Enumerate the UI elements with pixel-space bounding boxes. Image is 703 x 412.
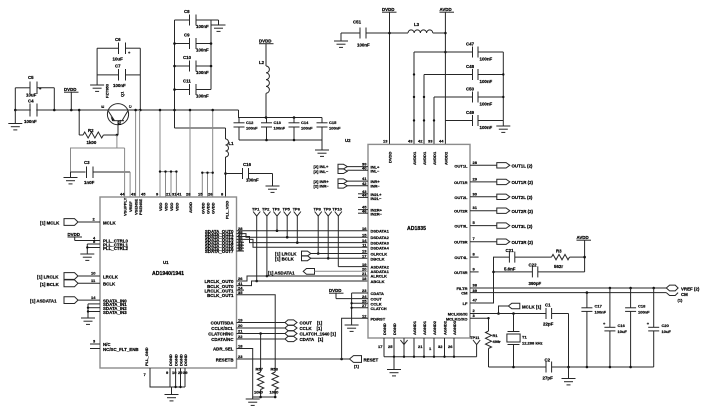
svg-text:CCLK/SCL: CCLK/SCL <box>211 326 234 331</box>
ground (C12 group) <box>315 140 329 156</box>
svg-text:NC/SC_FLT_ENB: NC/SC_FLT_ENB <box>103 347 139 352</box>
transistor Q1 FZT953 <box>100 83 133 136</box>
svg-text:100nF: 100nF <box>113 83 126 88</box>
svg-text:DVDD: DVDD <box>329 288 341 293</box>
node PLL_CTRL0 wire <box>75 235 129 243</box>
svg-text:TP3: TP3 <box>272 207 280 212</box>
svg-text:47: 47 <box>473 298 478 303</box>
wire U1 AVDD pin to rail <box>189 109 192 197</box>
svg-text:26: 26 <box>208 192 213 197</box>
capacitor C47 <box>414 42 503 62</box>
svg-text:ALRCLK: ALRCLK <box>371 274 388 279</box>
svg-text:[1]: [1] <box>354 364 360 369</box>
wire U1 VSUPPLY pin up <box>124 148 126 197</box>
ground (CDATA tie) <box>345 325 359 331</box>
capacitor C1 <box>543 303 569 327</box>
svg-text:TP6: TP6 <box>293 207 301 212</box>
wire LF to filter <box>470 257 509 303</box>
connector ASDATA1 [1] (to SDATA_IN0) <box>30 295 127 304</box>
svg-text:100nF: 100nF <box>246 126 258 131</box>
svg-text:R3: R3 <box>556 249 562 254</box>
svg-text:100nF: 100nF <box>24 119 37 124</box>
svg-text:RESETB: RESETB <box>216 357 234 362</box>
svg-text:L3: L3 <box>414 22 420 27</box>
wire OUT4L stub <box>470 256 479 258</box>
wire MCLKO/XO to R1 <box>470 317 490 331</box>
capacitor C10 <box>175 55 212 75</box>
svg-text:40: 40 <box>362 166 367 171</box>
connector MCLK [1] <box>40 217 117 226</box>
svg-text:28: 28 <box>473 160 478 165</box>
svg-text:R1: R1 <box>493 333 499 338</box>
connector BCLK [1] <box>40 278 116 287</box>
svg-text:TP10: TP10 <box>332 207 342 212</box>
op-amp U1 AD1940/1941 body <box>100 197 237 368</box>
connector CLATCH_1940 [1] <box>237 331 337 337</box>
svg-text:DGND: DGND <box>392 323 397 335</box>
capacitor C6 <box>97 37 140 62</box>
capacitor C12 <box>234 118 259 141</box>
power DVDD (U2) <box>382 7 397 144</box>
svg-text:C17: C17 <box>595 304 603 309</box>
svg-text:OUT3L: OUT3L <box>454 224 468 229</box>
svg-text:OUT4R: OUT4R <box>454 270 468 275</box>
power DVDD (COUT tie) <box>329 288 368 299</box>
svg-text:100nF: 100nF <box>196 94 209 99</box>
svg-text:CLATCH: CLATCH <box>371 306 387 311</box>
svg-text:VREF: VREF <box>128 201 133 212</box>
wire AVDD distribution verticals <box>413 52 435 144</box>
inductor L1 <box>224 128 234 197</box>
svg-text:30: 30 <box>473 191 478 196</box>
svg-text:TP8: TP8 <box>314 207 322 212</box>
svg-text:CDATA [1]: CDATA [1] <box>300 337 324 342</box>
svg-text:DVDD: DVDD <box>382 7 394 12</box>
resistor R2 <box>78 109 117 145</box>
svg-text:[1] BCLK: [1] BCLK <box>275 257 295 262</box>
power AVDD (U2) <box>440 7 455 144</box>
svg-text:OUT1L: OUT1L <box>454 163 468 168</box>
U1 top pin labels <box>123 197 230 219</box>
capacitor C51 <box>341 20 390 48</box>
svg-text:43: 43 <box>131 192 136 197</box>
ground (PLL_CTRL) <box>80 244 94 260</box>
svg-text:DVDD: DVDD <box>388 152 393 163</box>
connector OUT1L (2) <box>470 163 533 169</box>
connector OUT2L (2) <box>470 194 533 200</box>
svg-text:22pF: 22pF <box>543 322 554 327</box>
node N/C pin <box>90 339 111 348</box>
svg-text:CDATA/NC: CDATA/NC <box>211 337 234 342</box>
svg-text:COUT/SDA: COUT/SDA <box>211 321 235 326</box>
svg-text:12: 12 <box>362 313 367 318</box>
svg-text:COUT [1]: COUT [1] <box>300 321 323 326</box>
ground (C47 group) <box>496 126 510 132</box>
wire C1 right to ground rail <box>568 314 570 368</box>
U2 bottom DGND pins <box>378 320 477 358</box>
svg-text:DVDD: DVDD <box>68 232 80 237</box>
svg-text:27pF: 27pF <box>543 376 554 381</box>
svg-text:LF: LF <box>463 301 468 306</box>
svg-text:C51: C51 <box>353 20 362 25</box>
node IN2L stubs <box>358 194 368 198</box>
svg-text:DVDD: DVDD <box>64 87 76 92</box>
connector ASDATA1 [1] mid <box>268 269 368 276</box>
test point TP11 <box>470 335 480 357</box>
svg-text:100nF: 100nF <box>196 48 209 53</box>
ground (C51) <box>334 33 348 47</box>
test point TP1 <box>252 207 260 283</box>
power AVDD (filter) <box>577 235 592 272</box>
svg-text:C1: C1 <box>545 303 551 308</box>
svg-text:C16: C16 <box>243 162 252 167</box>
capacitor C11 <box>175 79 212 99</box>
svg-text:32: 32 <box>438 344 443 349</box>
svg-text:L2: L2 <box>259 60 265 65</box>
svg-text:38: 38 <box>473 283 478 288</box>
svg-text:PLL_VDD: PLL_VDD <box>225 201 230 219</box>
svg-text:ABCLK: ABCLK <box>371 279 385 284</box>
capacitor C13 <box>261 118 286 141</box>
svg-text:L1: L1 <box>229 141 235 146</box>
capacitor C18 <box>625 288 650 368</box>
svg-text:21: 21 <box>418 344 423 349</box>
node SDATA_IN1 wire <box>88 299 127 307</box>
svg-text:44: 44 <box>439 139 444 144</box>
resistor R3 <box>552 249 585 270</box>
svg-text:VDD: VDD <box>164 202 169 211</box>
svg-text:28: 28 <box>186 192 191 197</box>
svg-text:[1] BCLK: [1] BCLK <box>40 282 60 287</box>
U1 bottom PLL_GND pin <box>144 347 171 387</box>
svg-text:10uF: 10uF <box>113 57 124 62</box>
svg-text:DGND: DGND <box>382 323 387 335</box>
svg-text:C49: C49 <box>466 110 475 115</box>
wire rail elbow to C12 group top rail <box>239 110 323 119</box>
wire PD/RST to RESETB <box>342 318 368 359</box>
ground (C8 stack) <box>211 20 226 31</box>
svg-text:AGND2: AGND2 <box>443 320 448 335</box>
svg-text:TP2: TP2 <box>262 207 270 212</box>
wire SDATA_OUT3 to DSDATA4 <box>237 239 369 247</box>
svg-text:19: 19 <box>172 370 177 375</box>
svg-text:OUT3R: OUT3R <box>454 240 468 245</box>
svg-text:OUT3L (2): OUT3L (2) <box>512 224 533 229</box>
svg-text:C47: C47 <box>466 42 475 47</box>
svg-text:[2] INR−: [2] INR− <box>314 183 330 188</box>
svg-text:C50: C50 <box>466 87 475 92</box>
svg-text:TP9: TP9 <box>324 207 332 212</box>
svg-text:AGND1: AGND1 <box>412 320 417 335</box>
svg-text:C6: C6 <box>115 37 121 42</box>
junction dots on rail <box>14 109 17 112</box>
svg-text:100nF: 100nF <box>480 125 493 130</box>
test point TP8 <box>314 207 322 255</box>
wire base node to VSENSE pin and C3 <box>71 135 125 172</box>
connector RESET [1] <box>350 356 379 369</box>
capacitor C5 <box>15 75 54 110</box>
svg-text:OUT3R (2): OUT3R (2) <box>512 240 534 245</box>
connector LRCLK [1] <box>37 271 119 280</box>
wire MCLKI0/XI line <box>470 312 546 315</box>
capacitor C48 <box>424 64 503 84</box>
svg-text:AVDD: AVDD <box>577 235 589 240</box>
svg-text:VDD: VDD <box>174 202 179 211</box>
svg-text:33: 33 <box>428 139 433 144</box>
svg-text:C16: C16 <box>618 323 626 328</box>
svg-text:E: E <box>100 105 105 108</box>
ground (C7) <box>90 85 104 91</box>
svg-text:C13: C13 <box>274 120 282 125</box>
svg-text:CLATCH/NC: CLATCH/NC <box>208 332 234 337</box>
svg-text:AGND2: AGND2 <box>432 320 437 335</box>
ground (ADR_SEL/R57/R58) <box>246 397 260 405</box>
svg-text:17: 17 <box>362 254 367 259</box>
svg-text:C20: C20 <box>662 323 670 328</box>
svg-text:[1] LRCLK: [1] LRCLK <box>37 275 59 280</box>
svg-text:42: 42 <box>362 181 367 186</box>
svg-text:AVDD2: AVDD2 <box>443 151 448 165</box>
wire RESETB to RESET connector <box>237 358 350 361</box>
svg-text:25: 25 <box>388 344 393 349</box>
wire LRCLK_OUT1 stub <box>237 289 245 291</box>
svg-text:[1] ASDATA1: [1] ASDATA1 <box>268 271 295 276</box>
wire BCLK_OUT0 to ABCLK <box>237 281 369 286</box>
svg-text:10uF: 10uF <box>618 329 628 334</box>
svg-text:C7: C7 <box>115 64 121 69</box>
svg-text:TP1: TP1 <box>252 207 260 212</box>
svg-text:AVDD: AVDD <box>440 7 452 12</box>
svg-text:SDATA_IN3: SDATA_IN3 <box>103 310 127 315</box>
svg-text:SDATA_OUT7: SDATA_OUT7 <box>205 249 234 254</box>
svg-text:OUT1L (2): OUT1L (2) <box>512 164 533 169</box>
svg-text:VSUPPLY: VSUPPLY <box>123 197 128 216</box>
svg-text:RESET: RESET <box>364 358 379 363</box>
svg-text:IN2L−: IN2L− <box>371 196 383 201</box>
svg-text:13: 13 <box>383 139 388 144</box>
test point TP2 <box>262 207 271 278</box>
wire SDATA_OUT1 to DSDATA2 <box>237 234 369 239</box>
U1 bottom DGND pins <box>166 354 188 388</box>
svg-text:CM: CM <box>681 292 688 297</box>
svg-text:100nF: 100nF <box>357 43 370 48</box>
svg-text:100nF: 100nF <box>480 57 493 62</box>
svg-text:GVDD: GVDD <box>211 202 216 214</box>
svg-text:10k0: 10k0 <box>254 390 264 395</box>
svg-text:39: 39 <box>183 370 188 375</box>
U1 right pin labels LRCLK_OUT <box>204 279 234 298</box>
wire CDATA/CCLK/CLATCH to ground <box>350 293 368 325</box>
svg-text:C3: C3 <box>84 160 90 165</box>
svg-text:562r: 562r <box>554 264 563 269</box>
svg-text:U2: U2 <box>345 138 351 143</box>
power DVDD (PLL_CTRL) <box>68 232 83 241</box>
svg-text:FZT953: FZT953 <box>105 83 110 98</box>
ground (C3) <box>64 172 78 184</box>
svg-text:C18: C18 <box>638 304 646 309</box>
svg-text:VREF (2): VREF (2) <box>681 287 700 292</box>
ground (crystal/caps rail) <box>562 366 576 385</box>
connector MCLK [1] (crystal) <box>497 303 542 315</box>
svg-text:15: 15 <box>362 232 367 237</box>
svg-text:PD/RST: PD/RST <box>371 316 386 321</box>
capacitor C21 <box>504 248 552 272</box>
svg-text:390pF: 390pF <box>529 281 542 286</box>
svg-text:IN2R−: IN2R− <box>371 212 383 217</box>
svg-text:21: 21 <box>166 192 171 197</box>
inductor L3 <box>390 22 446 33</box>
connector INR [2] <box>314 179 369 189</box>
connector OUT3L (2) <box>470 223 533 229</box>
svg-text:BCLK_OUT1: BCLK_OUT1 <box>207 293 234 298</box>
wire U1 VDD pins to rail <box>159 109 178 197</box>
U2 left pin numbers <box>362 162 367 319</box>
svg-text:OUT1R: OUT1R <box>454 180 468 185</box>
svg-text:R2: R2 <box>88 128 94 133</box>
test point TP3 <box>272 207 280 231</box>
svg-text:18: 18 <box>238 344 243 349</box>
svg-text:21: 21 <box>238 329 243 334</box>
svg-text:1k00: 1k00 <box>87 140 97 145</box>
svg-text:(1): (1) <box>678 298 684 303</box>
svg-text:C48: C48 <box>466 64 475 69</box>
svg-text:44: 44 <box>120 192 125 197</box>
wire FILTR line <box>470 287 666 290</box>
svg-text:18: 18 <box>362 276 367 281</box>
capacitor C22 <box>494 263 585 287</box>
wire SDATA_OUT2 to DSDATA3 <box>237 237 369 244</box>
test point TP5 <box>283 207 291 238</box>
ground (C4/C5) <box>8 110 22 130</box>
svg-text:LRCLK: LRCLK <box>103 274 119 279</box>
wire OUT4R stub <box>470 271 479 273</box>
wire C8 stack to L1 <box>175 127 226 129</box>
capacitor C20 (10uF) <box>647 288 672 367</box>
svg-text:31: 31 <box>473 205 478 210</box>
U1 right pin labels SDATA_OUT0-7 <box>205 229 234 254</box>
svg-text:OUT2R (2): OUT2R (2) <box>512 209 534 214</box>
svg-text:PSENSE: PSENSE <box>138 198 143 215</box>
svg-text:B1: B1 <box>117 119 122 125</box>
svg-text:AGND1: AGND1 <box>422 320 427 335</box>
capacitor C15 <box>317 118 342 141</box>
svg-text:INR−: INR− <box>371 184 381 189</box>
svg-text:AVDD1: AVDD1 <box>432 151 437 165</box>
svg-text:29: 29 <box>473 176 478 181</box>
svg-text:CM: CM <box>461 291 468 296</box>
ground (C16) <box>266 174 280 193</box>
svg-text:499r: 499r <box>493 339 502 344</box>
svg-text:C15: C15 <box>329 120 337 125</box>
svg-text:ADR_SEL: ADR_SEL <box>213 347 234 352</box>
connector BCLK [1] mid <box>275 256 328 262</box>
capacitor C2 <box>543 358 654 381</box>
svg-text:AVDD1: AVDD1 <box>422 151 427 165</box>
svg-text:Q1: Q1 <box>120 91 125 97</box>
svg-text:21: 21 <box>362 271 367 276</box>
U2 right pin labels <box>446 163 468 321</box>
svg-text:C2: C2 <box>545 358 551 363</box>
capacitor C16b (10uF) <box>603 288 627 368</box>
svg-text:C8: C8 <box>184 9 190 14</box>
power DVDD (rail) <box>64 87 79 111</box>
U2 left pin labels <box>371 164 390 321</box>
svg-text:23: 23 <box>238 354 243 359</box>
connector CDATA [1] <box>237 336 324 342</box>
svg-text:AVDD1: AVDD1 <box>412 151 417 165</box>
svg-text:[2] INL−: [2] INL− <box>314 169 329 174</box>
wire OLRCLK row <box>318 253 368 255</box>
svg-text:DGND: DGND <box>168 354 173 366</box>
connector LRCLK [1] mid <box>275 251 318 256</box>
svg-text:17: 17 <box>378 344 383 349</box>
svg-text:DVDD: DVDD <box>259 39 271 44</box>
svg-text:10uF: 10uF <box>26 93 37 98</box>
resistor R58 <box>270 367 280 398</box>
connector OUT2R (2) <box>470 208 534 214</box>
U1 right pin labels COUT group <box>208 321 234 363</box>
svg-text:MCLKO/XO: MCLKO/XO <box>446 317 468 322</box>
svg-text:45: 45 <box>141 192 146 197</box>
capacitor C8 <box>175 9 212 29</box>
svg-text:AD1835: AD1835 <box>407 226 426 232</box>
ground (U1 DGND) <box>165 387 179 401</box>
svg-text:OUT2R: OUT2R <box>454 209 468 214</box>
svg-text:100nF: 100nF <box>329 126 341 131</box>
svg-text:26: 26 <box>448 344 453 349</box>
svg-text:TP11: TP11 <box>470 335 480 340</box>
connector OUT3R (2) <box>470 239 534 245</box>
svg-text:MCLK: MCLK <box>103 220 117 225</box>
wire SDATA_OUT0 to DSDATA1 <box>237 229 369 232</box>
svg-text:15: 15 <box>198 192 203 197</box>
node PLL_CTRL2 wire <box>87 243 128 251</box>
capacitor C3 <box>84 160 130 185</box>
power DVDD (L2) <box>259 39 274 67</box>
svg-text:C4: C4 <box>28 99 34 104</box>
capacitor C7 <box>97 64 140 89</box>
svg-text:22: 22 <box>238 334 243 339</box>
svg-text:TP5: TP5 <box>283 207 291 212</box>
svg-text:VDD: VDD <box>169 202 174 211</box>
test point TP9 <box>324 207 332 260</box>
capacitor C9 <box>175 33 212 53</box>
svg-text:[1] ASDATA1: [1] ASDATA1 <box>30 299 57 304</box>
capacitor C16 <box>226 162 273 183</box>
svg-text:INL−: INL− <box>371 169 380 174</box>
svg-text:R58: R58 <box>271 367 279 372</box>
svg-text:OUT2L: OUT2L <box>454 195 468 200</box>
svg-text:1n0F: 1n0F <box>84 180 95 185</box>
svg-text:100nF: 100nF <box>274 126 286 131</box>
svg-text:100nF: 100nF <box>196 24 209 29</box>
svg-text:16: 16 <box>362 226 367 231</box>
svg-text:VDD: VDD <box>158 202 163 211</box>
wire SDATA_OUT4-7 stubs <box>237 242 245 251</box>
wire BCLK_OUT1 to R58 <box>237 295 276 372</box>
inductor L2 <box>259 60 269 118</box>
connector VREF/CM <box>666 285 700 302</box>
svg-text:10uF: 10uF <box>662 329 672 334</box>
node PLL_CTRL1 wire <box>87 239 128 247</box>
svg-text:100nF: 100nF <box>246 178 259 183</box>
svg-text:T1: T1 <box>522 335 527 340</box>
svg-text:AD1940/1941: AD1940/1941 <box>152 271 184 277</box>
capacitor C49 <box>445 110 503 130</box>
test point TP6 <box>293 207 301 243</box>
svg-text:C5: C5 <box>28 75 34 80</box>
wire ADR_SEL to ground <box>237 349 277 399</box>
